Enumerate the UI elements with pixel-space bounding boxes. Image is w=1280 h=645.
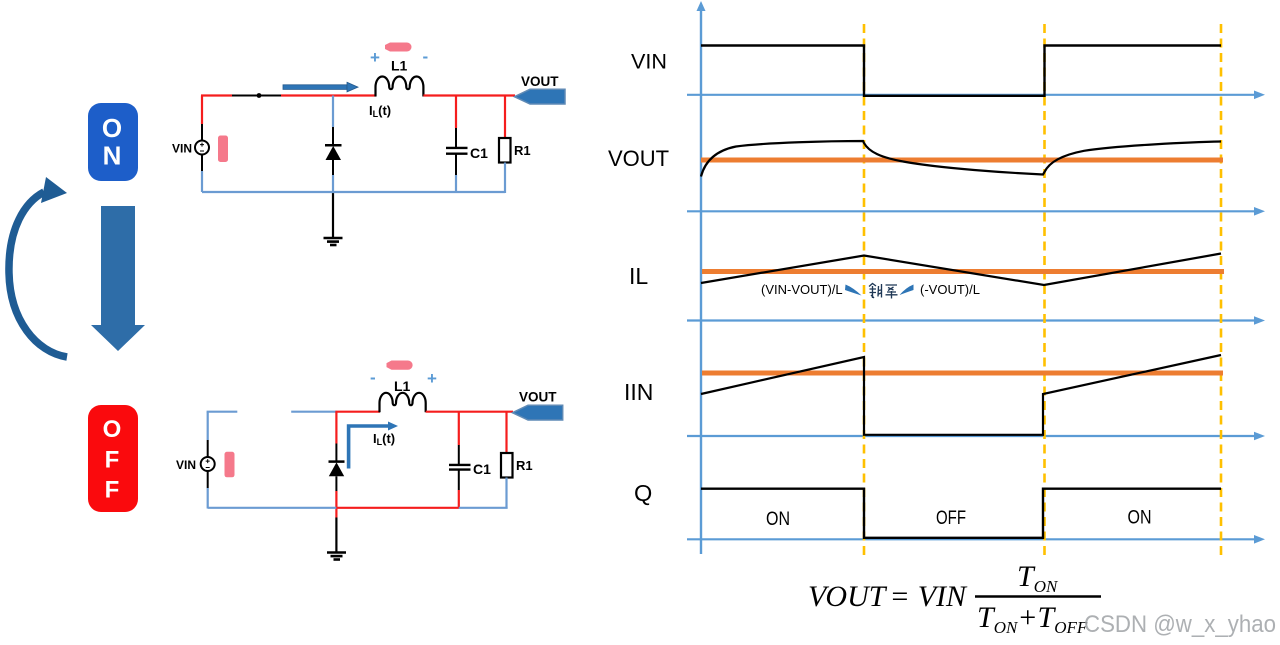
inductor L1 [376,76,424,96]
svg-text:F: F [105,447,120,474]
wire: below source black then blue to bottom rail [201,155,203,172]
svg-text:IL(t): IL(t) [369,103,391,119]
C1 branch red lower (off) [458,490,460,509]
bottom rail blue [202,191,505,193]
bottom rail blue left (off) [208,507,337,509]
wire: top rail red to inductor [335,411,380,413]
pink highlight pill above L1 [385,43,412,52]
svg-text:VOUT=VIN: VOUT=VIN [808,580,968,613]
ground symbol (off) [327,553,346,560]
C1 branch black lower (off) [458,470,460,490]
dashed timeline t3 [1220,24,1223,557]
axis 1 (VIN baseline) [687,94,1256,96]
VOUT flag arrow [515,89,566,104]
svg-text:R1: R1 [516,458,533,473]
svg-text:IL: IL [629,263,648,289]
Q waveform [701,489,1221,538]
svg-text:+: + [370,48,380,67]
svg-text:(-VOUT)/L: (-VOUT)/L [920,282,980,297]
VIN waveform [701,46,1221,96]
svg-text:CSDN @w_x_yhao: CSDN @w_x_yhao [1084,611,1276,638]
pink highlight pill beside source [218,136,228,163]
IL(t) current arrow (off) [349,426,390,469]
axis 4 (IIN baseline) [687,435,1256,437]
svg-text:TON+TOFF: TON+TOFF [977,601,1088,637]
svg-text:ON: ON [766,509,790,530]
resistor R1 (off) [501,453,513,478]
switch node dot [257,93,262,98]
svg-text:IIN: IIN [624,379,653,405]
axis 3 (IL baseline) [687,319,1256,321]
pink highlight pill beside source (off) [225,452,235,478]
ground stem (off) [335,518,337,553]
svg-text:F: F [105,477,120,504]
svg-text:VIN: VIN [631,51,667,74]
svg-text:C1: C1 [470,145,488,161]
VOUT waveform [701,141,1221,177]
IIN average orange line [702,371,1223,376]
bottom rail blue right (off) [459,507,508,509]
IL average orange line [702,269,1224,274]
svg-text:-: - [370,368,376,387]
diode branch: black wire below [332,160,334,175]
wire: left vertical blue [207,412,209,440]
wire: top rail red inductor to VOUT node [426,411,513,413]
ground stem [332,192,334,238]
diode branch black (off) [335,444,337,462]
VOUT flag arrow (off) [513,405,563,420]
wire: left vertical black to source [201,124,203,141]
diode branch red upper (off) [335,412,337,444]
diode lower black (off) [335,476,337,491]
fraction bar [975,595,1101,597]
slope arrow right [900,285,914,296]
svg-text:O: O [102,113,122,143]
wire: top rail blue stub (open switch left) [207,411,238,413]
slope arrow left [845,285,862,296]
ground symbol [324,238,343,245]
C1 branch black (off) [458,445,460,465]
axis 5 (Q baseline) [687,538,1256,540]
IL waveform triangle [701,254,1221,286]
svg-text:L1: L1 [391,58,408,74]
R1 branch: red upper wire [504,96,506,139]
diode D (cathode bar + triangle) [325,145,342,160]
svg-text:-: - [423,47,429,66]
axis 2 (VOUT baseline) [687,210,1256,212]
dashed timeline t2 [1043,24,1046,557]
svg-text:Q: Q [634,480,652,506]
cyclic curved arrow OFF->ON [9,177,67,357]
svg-text:OFF: OFF [936,508,966,529]
slope label 斜率 (drawn strokes) [869,284,898,299]
pink highlight pill above L1 (off) [387,361,413,370]
wire: top rail blue after open gap [291,411,336,413]
C1 branch: black wire [455,128,457,147]
svg-text:O: O [103,416,122,443]
IIN waveform [701,355,1221,435]
svg-text:TON: TON [1017,560,1059,596]
svg-text:R1: R1 [514,143,531,158]
C1 branch: red upper wire [455,96,457,129]
vertical axis [700,10,702,554]
current direction arrow (blue) [283,82,358,92]
svg-text:L1: L1 [394,378,411,394]
resistor R1 [499,138,511,163]
svg-text:VIN: VIN [172,142,192,156]
wire: black to source [207,440,209,457]
big down arrow ON->OFF [91,206,145,351]
voltage source VIN [195,141,209,155]
diode branch: black wire to cathode [332,127,334,145]
C1 branch red upper (off) [458,412,460,445]
ON state button [88,103,138,181]
dashed timeline t1 [863,24,866,557]
wire: top rail red from inductor to VOUT node [423,94,515,96]
C1 branch: blue wire to bottom rail [455,175,457,192]
capacitor C1 [446,148,468,154]
wire: top rail red from corner to switch [201,94,232,96]
svg-text:N: N [103,141,122,171]
svg-text:ON: ON [1128,508,1152,529]
OFF state button [88,405,138,512]
svg-text:(VIN-VOUT)/L: (VIN-VOUT)/L [761,282,843,297]
R1 branch red upper (off) [505,412,507,453]
VOUT average orange line [701,158,1223,163]
R1 branch: blue wire to bottom rail [504,163,506,194]
svg-text:IL(t): IL(t) [373,431,395,447]
wire: top rail red from switch to inductor [281,94,376,96]
svg-text:VOUT: VOUT [519,390,557,405]
C1 branch: black wire below [455,154,457,175]
svg-text:VOUT: VOUT [521,74,559,89]
capacitor C1 (off) [449,465,471,470]
diode D (off) [329,462,345,477]
R1 branch blue lower (off) [505,478,507,509]
svg-text:VIN: VIN [176,458,196,472]
svg-text:VOUT: VOUT [608,146,669,171]
diode lower red crossing bottom rail (off) [335,491,337,518]
inductor L1 (off) [380,393,426,412]
svg-text:+: + [427,369,437,388]
closed switch segment [232,95,281,97]
bottom rail red middle (off) [336,507,458,509]
diode branch: blue wire to bottom rail [332,175,334,193]
svg-text:C1: C1 [473,461,491,477]
wire: left vertical red from top corner [201,96,203,125]
voltage source VIN (off) [201,457,215,471]
wire: below source to bottom rail [207,471,209,488]
diode branch: blue upper wire [332,96,334,128]
